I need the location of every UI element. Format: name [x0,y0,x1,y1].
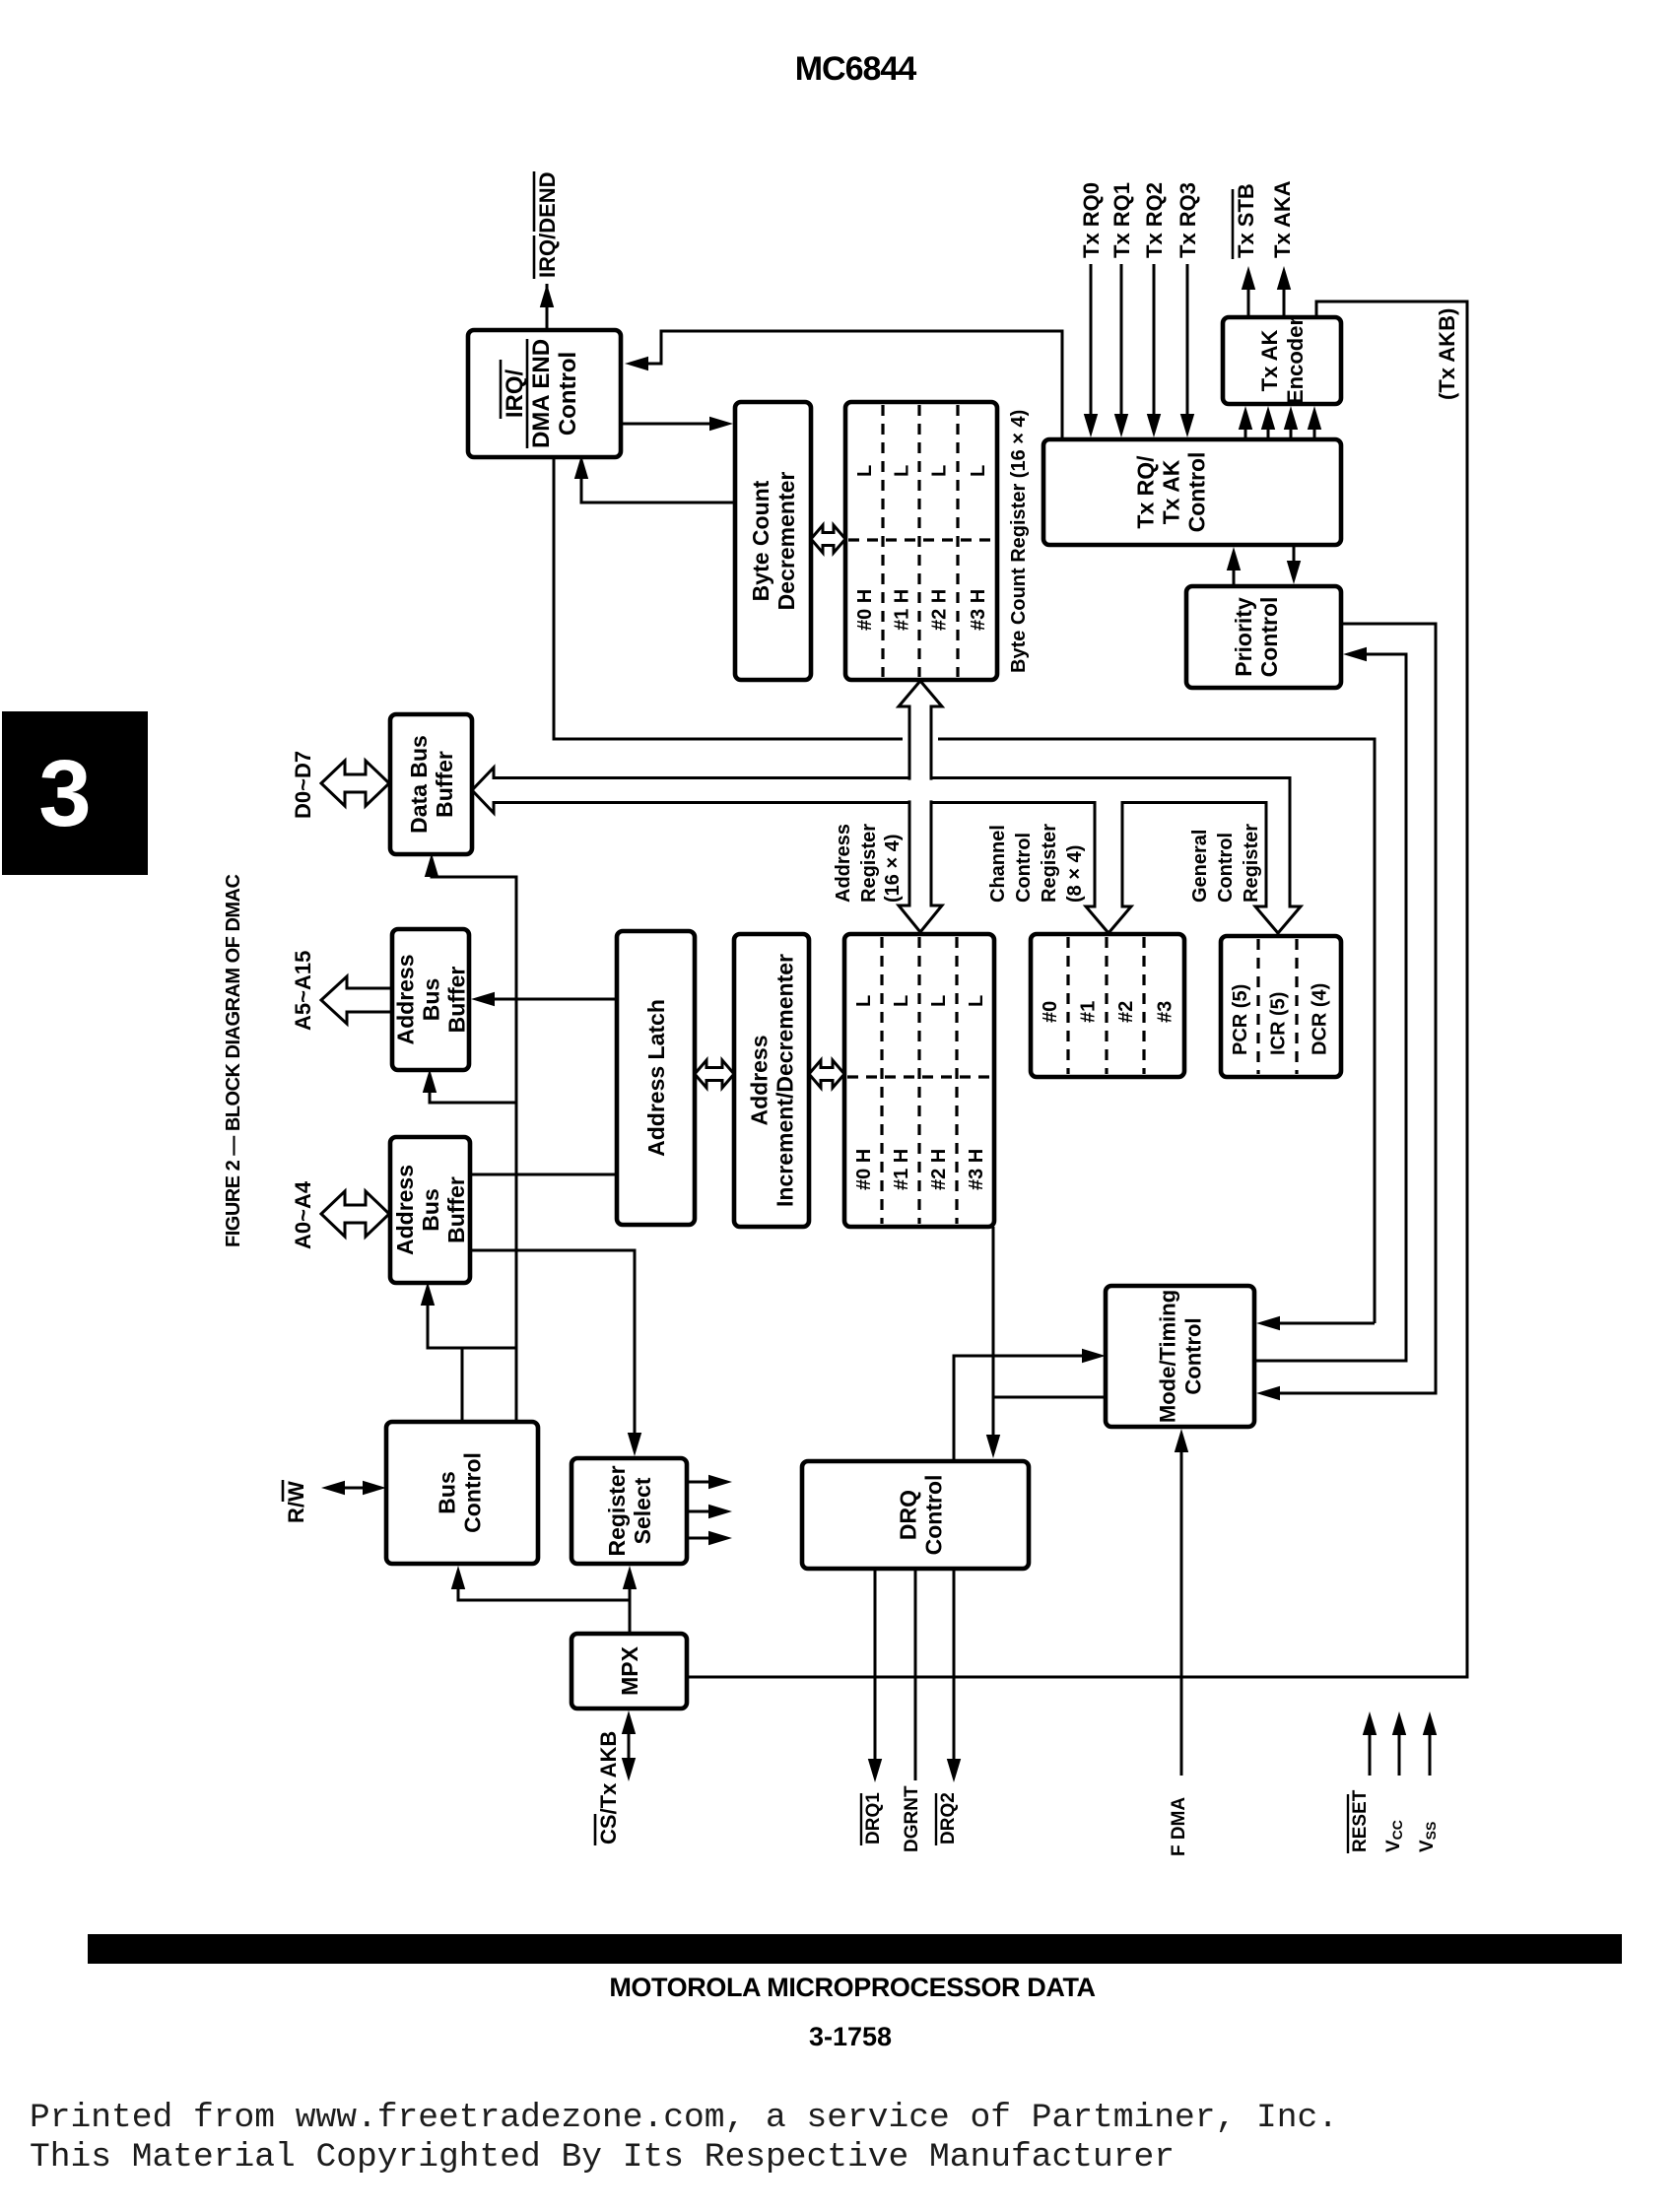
svg-text:General: General [1189,830,1211,903]
svg-text:Decrementer: Decrementer [773,472,799,611]
svg-text:L: L [854,465,876,477]
svg-text:Control: Control [1183,452,1209,533]
svg-text:3: 3 [38,741,91,846]
svg-text:DGRNT: DGRNT [902,1785,922,1852]
svg-text:CS/Tx AKB: CS/Tx AKB [596,1731,621,1844]
svg-text:D0~D7: D0~D7 [291,751,315,819]
svg-text:#1: #1 [1078,1001,1100,1023]
svg-text:Address: Address [392,954,418,1044]
svg-text:MC6844: MC6844 [795,50,917,88]
svg-text:Register: Register [1241,824,1262,903]
svg-text:Printed from www.freetradezone: Printed from www.freetradezone.com, a se… [30,2099,1338,2137]
svg-text:L: L [929,465,951,477]
svg-text:This Material Copyrighted By I: This Material Copyrighted By Its Respect… [30,2138,1175,2177]
svg-text:Tx RQ2: Tx RQ2 [1142,182,1167,258]
svg-text:Select: Select [630,1477,655,1544]
svg-text:Channel: Channel [987,825,1009,903]
svg-text:L: L [853,995,875,1007]
svg-text:A0~A4: A0~A4 [291,1180,315,1249]
svg-text:MPX: MPX [617,1645,642,1696]
svg-text:A5~A15: A5~A15 [291,951,315,1031]
svg-text:Bus: Bus [418,978,443,1021]
svg-text:R/W: R/W [284,1481,308,1523]
svg-text:Control: Control [1256,597,1282,678]
svg-text:Control: Control [1215,833,1237,903]
svg-text:L: L [966,995,987,1007]
svg-text:DMA END: DMA END [528,339,555,448]
svg-text:IRQ/: IRQ/ [502,369,528,419]
svg-text:Bus: Bus [434,1471,459,1513]
svg-text:(Tx AKB): (Tx AKB) [1435,308,1459,400]
svg-text:Register: Register [858,824,880,903]
svg-text:Register: Register [604,1465,630,1556]
svg-text:Tx RQ1: Tx RQ1 [1109,182,1134,258]
svg-text:#3 H: #3 H [968,589,989,631]
svg-text:FIGURE 2 — BLOCK DIAGRAM OF DM: FIGURE 2 — BLOCK DIAGRAM OF DMAC [223,875,244,1247]
svg-text:Encoder: Encoder [1283,317,1308,404]
svg-text:Tx AK: Tx AK [1257,330,1282,392]
svg-text:F DMA: F DMA [1169,1797,1189,1856]
svg-text:Tx AKA: Tx AKA [1270,180,1295,258]
svg-text:#2 H: #2 H [928,1149,950,1190]
svg-text:#0 H: #0 H [854,589,876,631]
svg-text:IRQ/DEND: IRQ/DEND [535,171,560,278]
svg-text:#0: #0 [1040,1001,1061,1023]
svg-text:#0 H: #0 H [853,1149,875,1190]
svg-text:#3: #3 [1155,1001,1176,1023]
svg-text:Buffer: Buffer [443,967,469,1034]
svg-text:L: L [891,995,912,1007]
svg-text:RESET: RESET [1350,1789,1371,1852]
svg-text:Tx RQ3: Tx RQ3 [1176,182,1200,258]
svg-text:(8 × 4): (8 × 4) [1064,845,1086,903]
svg-text:Tx AK: Tx AK [1158,459,1183,524]
svg-text:#1 H: #1 H [891,1149,912,1190]
svg-text:L: L [968,465,989,477]
svg-text:ICR (5): ICR (5) [1268,992,1290,1055]
svg-text:Register: Register [1039,824,1060,903]
svg-text:(16 × 4): (16 × 4) [882,835,904,903]
svg-text:Address: Address [746,1035,772,1125]
svg-text:MOTOROLA MICROPROCESSOR DATA: MOTOROLA MICROPROCESSOR DATA [609,1973,1095,2002]
svg-text:L: L [892,465,913,477]
svg-text:PCR (5): PCR (5) [1230,984,1251,1055]
svg-text:Buffer: Buffer [432,751,457,818]
svg-text:Control: Control [1180,1317,1205,1394]
svg-text:#1 H: #1 H [892,589,913,631]
svg-text:Control: Control [920,1475,946,1556]
svg-text:Address: Address [392,1165,418,1255]
svg-text:Address Latch: Address Latch [643,999,669,1157]
svg-text:Address: Address [833,824,854,903]
svg-text:Control: Control [459,1452,485,1533]
svg-text:Mode/Timing: Mode/Timing [1155,1290,1179,1423]
svg-text:Tx STB: Tx STB [1234,183,1258,258]
svg-text:Control: Control [1013,833,1035,903]
svg-text:Priority: Priority [1231,597,1256,677]
svg-text:Control: Control [555,352,581,436]
svg-text:Data Bus: Data Bus [406,735,432,834]
svg-text:Tx RQ0: Tx RQ0 [1079,182,1104,258]
svg-text:Increment/Decrementer: Increment/Decrementer [772,954,797,1207]
svg-text:Bus: Bus [418,1188,443,1231]
svg-text:#2: #2 [1115,1001,1137,1023]
svg-text:L: L [928,995,950,1007]
svg-text:3-1758: 3-1758 [809,2022,892,2051]
svg-text:Byte Count Register (16 × 4): Byte Count Register (16 × 4) [1008,410,1030,673]
svg-text:#3 H: #3 H [966,1149,987,1190]
svg-text:Byte Count: Byte Count [748,480,773,601]
svg-text:DCR (4): DCR (4) [1310,983,1331,1055]
svg-text:DRQ2: DRQ2 [938,1792,959,1844]
svg-text:#2 H: #2 H [929,589,951,631]
svg-text:DRQ1: DRQ1 [863,1792,884,1844]
svg-text:Buffer: Buffer [443,1176,469,1243]
svg-text:Tx RQ/: Tx RQ/ [1132,455,1158,529]
svg-text:DRQ: DRQ [895,1490,920,1540]
